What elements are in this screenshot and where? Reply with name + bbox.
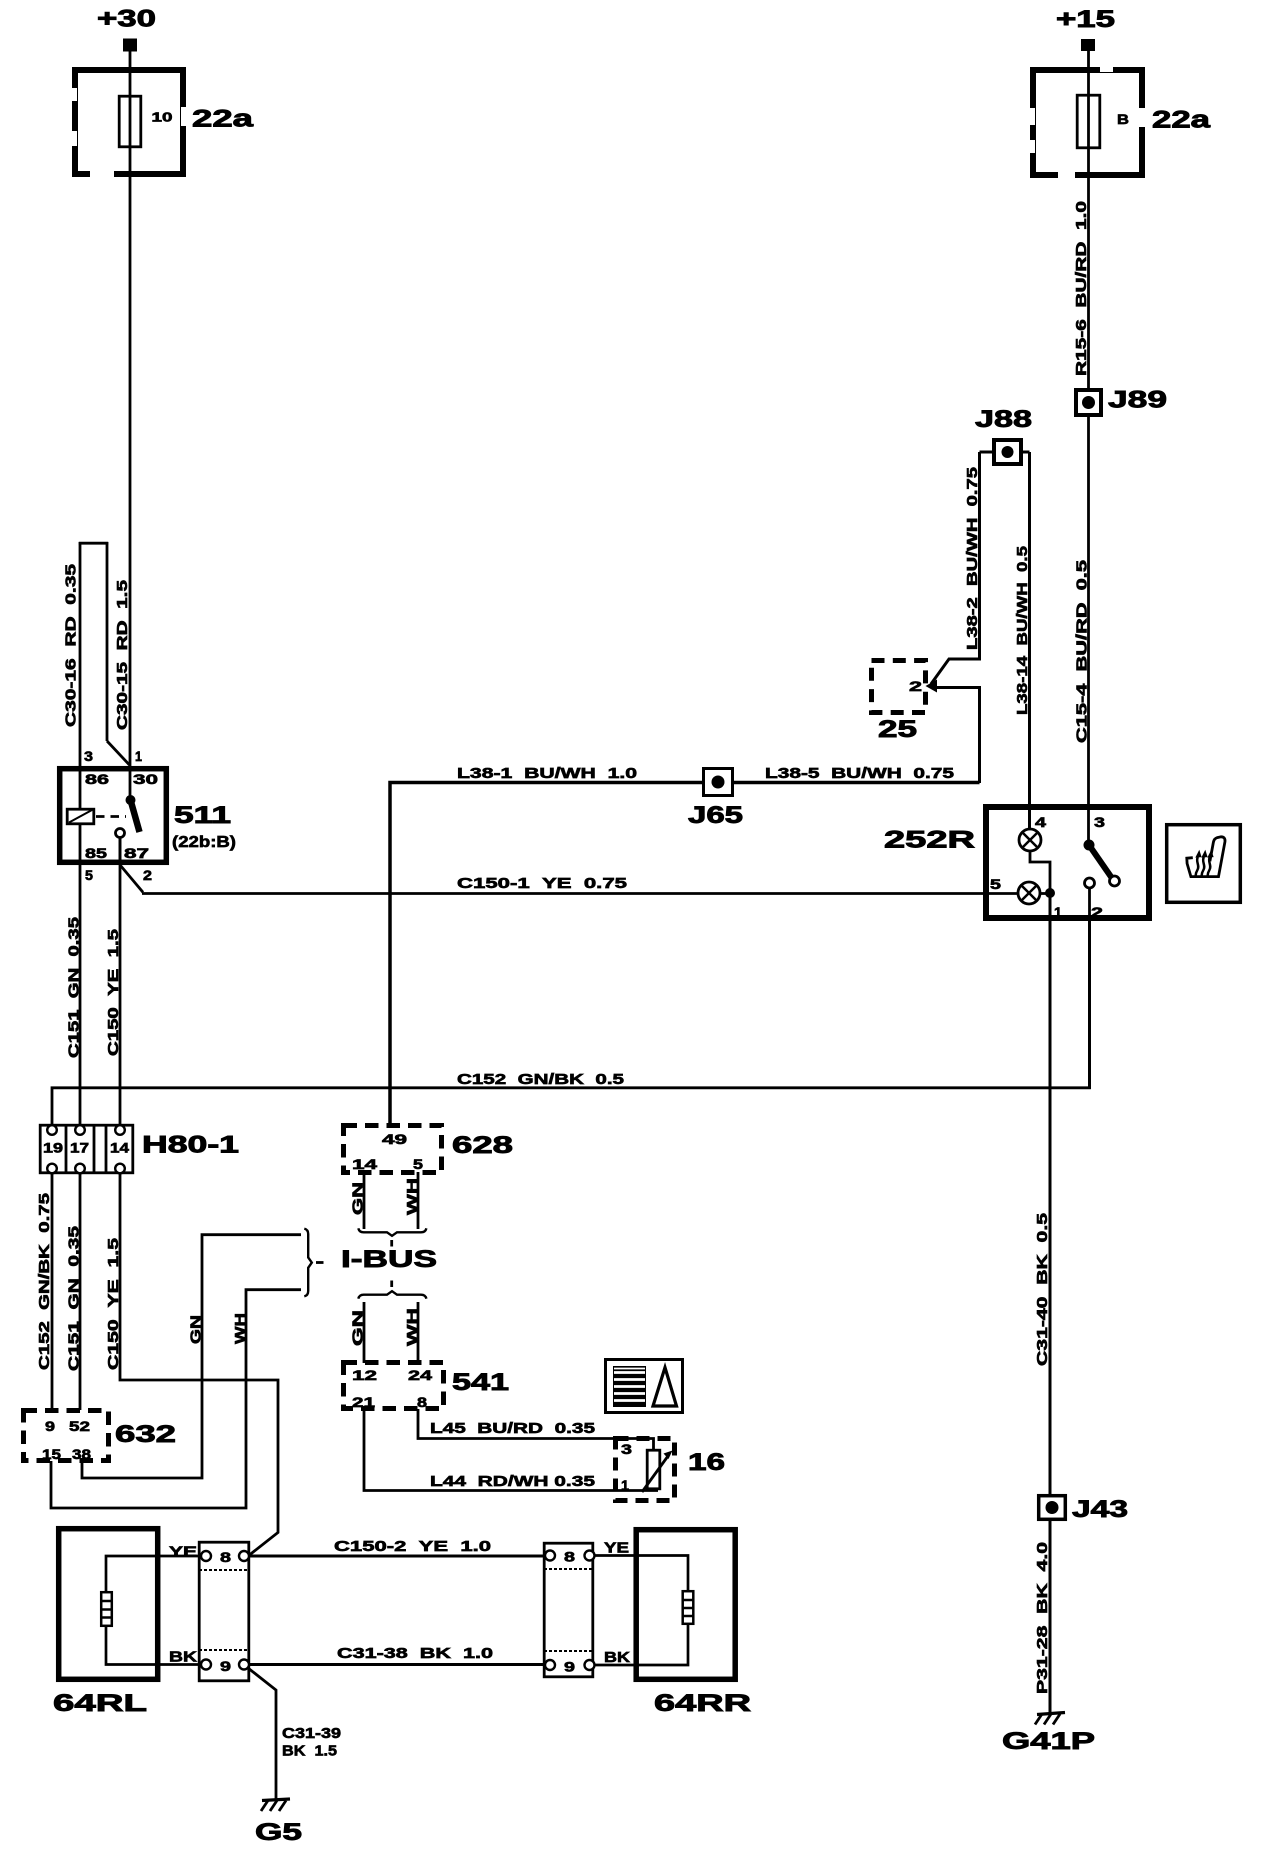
svg-text:C31-39: C31-39 [282, 1725, 341, 1742]
wire C30-16 / C30-15 loop above relay 511 [79, 542, 82, 766]
svg-text:C31-38 BK 1.0: C31-38 BK 1.0 [337, 1645, 493, 1662]
ground G41P [1035, 1713, 1065, 1725]
252R lamp bottom [1018, 882, 1040, 904]
svg-text:16: 16 [688, 1449, 725, 1476]
svg-text:252R: 252R [884, 827, 975, 854]
svg-text:8: 8 [417, 1394, 427, 1410]
svg-text:J89: J89 [1108, 387, 1167, 414]
wire C150-2 YE 1.0 [249, 1555, 545, 1558]
svg-text:1: 1 [1054, 904, 1062, 920]
sensor 16 [616, 1439, 675, 1501]
I-BUS top brace [358, 1228, 426, 1236]
seat connector left [199, 1542, 249, 1681]
svg-text:C30-16 RD 0.35: C30-16 RD 0.35 [63, 564, 80, 727]
252R switch blade [1084, 840, 1095, 851]
svg-text:GN: GN [350, 1310, 367, 1346]
svg-text:C152 GN/BK 0.75: C152 GN/BK 0.75 [36, 1193, 53, 1370]
svg-text:17: 17 [70, 1140, 89, 1156]
svg-text:C150-1 YE 0.75: C150-1 YE 0.75 [457, 875, 627, 892]
svg-text:10: 10 [152, 110, 173, 125]
wire WH to 541 pin 24 [417, 1302, 420, 1363]
wire C151 H80-1 pin 17 to 632 pin 52 [79, 1174, 82, 1410]
I-BUS left brace [304, 1229, 312, 1297]
svg-text:628: 628 [452, 1132, 513, 1159]
svg-text:C15-4 BU/RD 0.5: C15-4 BU/RD 0.5 [1074, 560, 1091, 743]
svg-text:64RR: 64RR [654, 1690, 751, 1717]
svg-text:C151 GN 0.35: C151 GN 0.35 [66, 917, 83, 1058]
ground G5 [261, 1799, 290, 1811]
svg-text:BK: BK [169, 1649, 197, 1666]
svg-text:3: 3 [84, 748, 93, 764]
svg-text:WH: WH [232, 1313, 249, 1344]
heater element 64RR [636, 1530, 735, 1680]
svg-text:15: 15 [42, 1446, 61, 1462]
wire C150 relay 87 to H80-1 pin 14 [119, 837, 122, 1125]
64RR element [594, 1556, 693, 1666]
I-BUS bottom brace [390, 1281, 393, 1288]
module 632 [24, 1411, 109, 1461]
heater element 64RL [59, 1529, 158, 1680]
wire GN 632 pin 38 to I-BUS [82, 1235, 301, 1478]
svg-text:GN: GN [188, 1315, 205, 1344]
svg-text:64RL: 64RL [53, 1690, 147, 1717]
wire +30 to relay 511 pin 1 through fuse [129, 51, 132, 800]
svg-text:21: 21 [352, 1394, 375, 1410]
svg-text:9: 9 [45, 1418, 55, 1434]
wire GN to 541 pin 12 [363, 1302, 366, 1363]
thermistor symbol [616, 1439, 673, 1493]
relay 511 contact 87 [116, 829, 125, 838]
wire C31-39 to ground G5 [248, 1668, 276, 1800]
svg-text:C151 GN 0.35: C151 GN 0.35 [66, 1226, 83, 1371]
svg-text:L38-5 BU/WH 0.75: L38-5 BU/WH 0.75 [765, 765, 954, 782]
wire C152 switch 252R pin 2 to H80-1 pin 19 [1088, 918, 1091, 1089]
junction J89 [1076, 390, 1101, 415]
svg-text:22a: 22a [192, 106, 254, 133]
fuse box 22a right [1026, 63, 1146, 180]
svg-text:5: 5 [85, 867, 93, 883]
svg-text:1: 1 [135, 748, 142, 764]
svg-text:25: 25 [878, 716, 917, 743]
svg-text:3: 3 [621, 1441, 632, 1457]
svg-text:GN: GN [350, 1182, 367, 1215]
svg-text:+30: +30 [97, 6, 156, 33]
svg-text:BK 1.5: BK 1.5 [282, 1743, 337, 1760]
relay 511 box [60, 769, 167, 863]
wire R15-6 / C15-4 from +15 to switch 252R pin 3 [1087, 50, 1090, 840]
fuse element 10 [119, 96, 141, 147]
64RL element [101, 1556, 201, 1665]
module 541 [344, 1363, 444, 1409]
wire WH 628 pin 5 [417, 1172, 420, 1229]
svg-text:G41P: G41P [1002, 1728, 1095, 1755]
wire C150 H80-1 pin 14 to seat connector [120, 1174, 278, 1555]
svg-text:2: 2 [143, 867, 152, 883]
svg-text:C31-40 BK 0.5: C31-40 BK 0.5 [1034, 1213, 1051, 1366]
svg-text:5: 5 [990, 876, 1001, 892]
svg-text:L38-14 BU/WH 0.5: L38-14 BU/WH 0.5 [1014, 546, 1031, 715]
svg-text:86: 86 [85, 771, 109, 787]
svg-text:14: 14 [110, 1140, 129, 1156]
svg-text:3: 3 [1094, 814, 1105, 830]
wire C31-38 BK 1.0 [249, 1663, 545, 1666]
svg-text:BK: BK [604, 1649, 630, 1666]
svg-text:9: 9 [564, 1659, 575, 1675]
wire L38-2 J88 to connector 25 pin 2 [931, 452, 980, 684]
svg-text:C150 YE 1.5: C150 YE 1.5 [105, 929, 122, 1056]
connector H80-1 [40, 1124, 133, 1174]
svg-text:87: 87 [124, 845, 149, 861]
svg-text:L45 BU/RD 0.35: L45 BU/RD 0.35 [430, 1420, 595, 1437]
svg-text:12: 12 [352, 1367, 377, 1383]
wire C150-1 relay pin 2 to switch 252R pin 5 [121, 866, 144, 893]
svg-text:22a: 22a [1152, 107, 1211, 134]
wire 252R pin 1 to J43 [1049, 893, 1052, 1713]
wire L38-14 J88 to switch 252R pin 4 [1028, 452, 1031, 829]
junction J43 [1039, 1496, 1066, 1520]
wire L38-1 / L38-5 horizontal run [390, 783, 980, 1124]
svg-text:38: 38 [72, 1446, 91, 1462]
svg-text:L38-1 BU/WH 1.0: L38-1 BU/WH 1.0 [457, 765, 637, 782]
switch 252R box [986, 807, 1149, 918]
svg-text:8: 8 [564, 1549, 575, 1565]
svg-text:C150 YE 1.5: C150 YE 1.5 [105, 1238, 122, 1370]
svg-text:511: 511 [174, 802, 231, 829]
connector 25 [872, 661, 926, 713]
module 628 [344, 1126, 442, 1173]
svg-text:J88: J88 [975, 406, 1032, 433]
svg-text:19: 19 [43, 1140, 63, 1156]
svg-text:I-BUS: I-BUS [341, 1246, 437, 1273]
relay 511 switch blade [126, 795, 136, 805]
wire L44 541 pin 21 to sensor 16 pin 1 [364, 1409, 616, 1491]
svg-text:C30-15 RD 1.5: C30-15 RD 1.5 [114, 580, 131, 730]
seat connector right [544, 1543, 595, 1677]
wire L38-5 connector 25 pin 2 down to J65 run [932, 688, 980, 784]
svg-text:2: 2 [1091, 904, 1103, 920]
wire GN 628 pin 14 [363, 1172, 366, 1229]
svg-text:C150-2 YE 1.0: C150-2 YE 1.0 [334, 1538, 491, 1555]
svg-text:C152 GN/BK 0.5: C152 GN/BK 0.5 [457, 1071, 624, 1088]
svg-text:J43: J43 [1072, 1496, 1128, 1523]
svg-text:B: B [1117, 111, 1129, 127]
252R lamp top [1019, 829, 1041, 851]
svg-text:85: 85 [85, 845, 107, 861]
display icon [606, 1360, 683, 1413]
svg-text:WH: WH [404, 1308, 421, 1346]
svg-text:L44 RD/WH 0.35: L44 RD/WH 0.35 [430, 1473, 595, 1490]
wire through J88 [980, 451, 1030, 454]
svg-text:541: 541 [452, 1369, 509, 1396]
svg-text:14: 14 [352, 1156, 377, 1172]
svg-text:24: 24 [408, 1367, 432, 1383]
svg-text:R15-6 BU/RD 1.0: R15-6 BU/RD 1.0 [1073, 201, 1090, 376]
svg-text:YE: YE [604, 1540, 629, 1557]
svg-text:4: 4 [1035, 814, 1046, 830]
svg-text:5: 5 [413, 1156, 423, 1172]
wire C152 H80-1 pin 19 to 632 pin 9 [51, 1174, 54, 1410]
svg-text:WH: WH [404, 1178, 421, 1215]
junction J88 [975, 406, 1032, 433]
svg-text:P31-28 BK 4.0: P31-28 BK 4.0 [1034, 1542, 1051, 1694]
svg-text:8: 8 [220, 1549, 231, 1565]
fuse element B [1077, 95, 1100, 148]
svg-text:52: 52 [69, 1418, 90, 1434]
svg-text:30: 30 [133, 771, 158, 787]
svg-text:G5: G5 [255, 1819, 302, 1846]
pin 2 of connector 25 [926, 680, 938, 693]
fuse box 22a left [68, 70, 190, 179]
relay 511 coil [79, 766, 82, 809]
svg-text:9: 9 [220, 1658, 231, 1674]
heated seat icon [1167, 825, 1241, 903]
svg-text:YE: YE [169, 1544, 197, 1561]
wire WH 632 pin 15 to I-BUS [51, 1290, 301, 1508]
svg-text:H80-1: H80-1 [142, 1132, 239, 1159]
junction J65 [704, 769, 733, 796]
svg-text:632: 632 [115, 1421, 176, 1448]
svg-text:J65: J65 [688, 802, 743, 829]
svg-text:L38-2 BU/WH 0.75: L38-2 BU/WH 0.75 [964, 467, 981, 650]
relay 511 armature dashes [96, 815, 126, 818]
svg-text:(22b:B): (22b:B) [172, 834, 236, 851]
252R junction dot [1045, 888, 1055, 898]
wire C151 relay 85 to H80-1 pin 17 [79, 865, 82, 1125]
svg-text:49: 49 [382, 1131, 407, 1147]
wire L45 541 pin 8 to sensor 16 pin 3 [418, 1409, 616, 1439]
svg-text:+15: +15 [1056, 6, 1115, 33]
svg-text:2: 2 [909, 678, 922, 694]
